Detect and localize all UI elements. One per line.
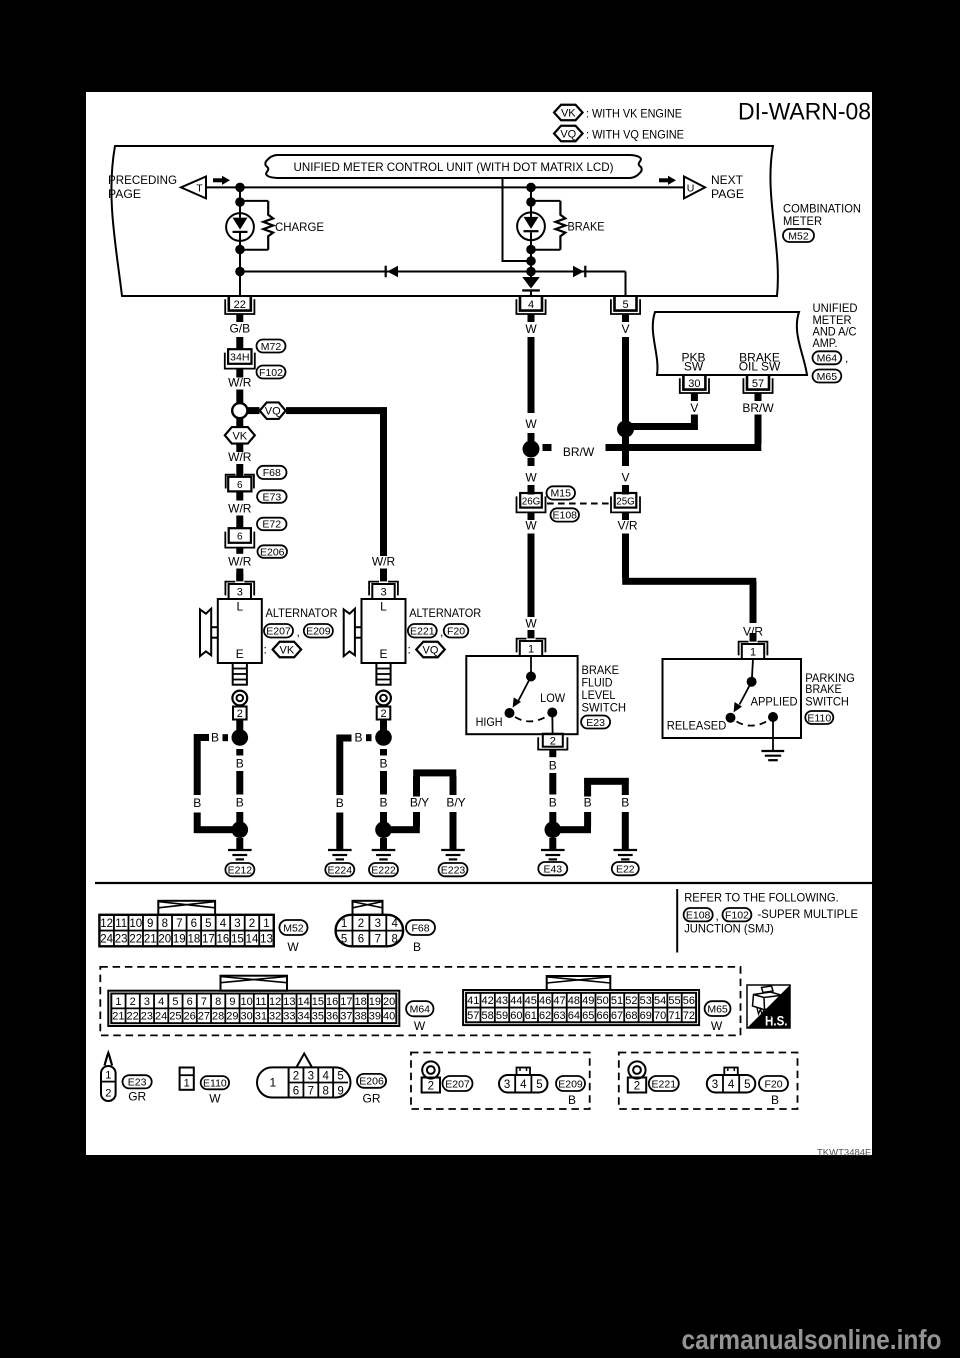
svg-text:F20: F20 [764,1078,782,1090]
svg-text:2: 2 [105,1088,111,1100]
svg-text:5: 5 [337,1070,343,1082]
svg-text:37: 37 [340,1011,352,1023]
svg-text:51: 51 [611,995,623,1007]
svg-text:: WITH VK ENGINE: : WITH VK ENGINE [586,106,682,120]
svg-text:RELEASED: RELEASED [667,719,727,733]
svg-text:: WITH VQ ENGINE: : WITH VQ ENGINE [586,127,684,141]
svg-text:49: 49 [582,995,594,1007]
svg-text:62: 62 [539,1010,551,1022]
svg-text:F102: F102 [259,367,283,379]
svg-text:3: 3 [712,1079,718,1091]
svg-text:44: 44 [510,995,522,1007]
svg-text:M52: M52 [283,922,304,934]
svg-text:8: 8 [392,934,398,946]
svg-text:E73: E73 [263,491,282,503]
svg-text:16: 16 [326,996,338,1008]
svg-text:4: 4 [728,1079,735,1091]
svg-text:G/B: G/B [229,321,250,335]
svg-text:19: 19 [369,996,381,1008]
svg-text:30: 30 [688,378,700,390]
svg-text:M15: M15 [551,488,572,500]
svg-text:W/R: W/R [228,375,252,389]
svg-text:12: 12 [100,918,113,930]
svg-text:U: U [687,182,695,194]
svg-text:PAGE: PAGE [108,187,141,201]
svg-text:2: 2 [428,1080,434,1092]
svg-text:35: 35 [312,1011,324,1023]
svg-text:3: 3 [308,1070,314,1082]
svg-text:W: W [287,940,299,954]
svg-text:5: 5 [536,1079,542,1091]
svg-text:B: B [413,940,421,954]
svg-text:B: B [379,796,387,810]
svg-text:V/R: V/R [617,519,637,533]
svg-text:,: , [845,351,848,365]
svg-text:24: 24 [100,934,113,946]
svg-text:BR/W: BR/W [742,401,774,415]
svg-text:3: 3 [380,587,386,599]
svg-text:E23: E23 [586,717,605,729]
svg-text:34: 34 [298,1011,310,1023]
svg-text:VQ: VQ [423,644,439,656]
svg-text:V: V [621,471,629,485]
svg-text:M65: M65 [707,1003,728,1015]
svg-text:34H: 34H [230,353,250,364]
svg-text:E221: E221 [410,626,435,638]
svg-text:11: 11 [255,996,266,1008]
svg-text:9: 9 [147,918,153,930]
svg-text:21: 21 [112,1011,124,1023]
svg-text:B: B [621,796,629,810]
svg-text:1: 1 [263,918,269,930]
svg-text:ALTERNATOR: ALTERNATOR [266,606,338,620]
svg-text:43: 43 [496,995,508,1007]
svg-text:BRAKE: BRAKE [805,682,841,696]
svg-text:70: 70 [654,1010,666,1022]
svg-text:W: W [525,519,537,533]
svg-text:E207: E207 [266,626,291,638]
svg-text:24: 24 [155,1011,167,1023]
svg-text:21: 21 [144,934,157,946]
svg-text:68: 68 [625,1010,637,1022]
svg-text:METER: METER [783,214,822,228]
svg-text:69: 69 [640,1010,652,1022]
svg-text:REFER TO THE FOLLOWING.: REFER TO THE FOLLOWING. [684,890,839,904]
svg-text:carmanualsonline.info: carmanualsonline.info [682,1324,942,1355]
svg-text:-SUPER MULTIPLE: -SUPER MULTIPLE [758,907,859,921]
svg-text:22: 22 [234,299,246,311]
svg-text:B: B [584,796,592,810]
svg-text:23: 23 [115,934,128,946]
svg-text:2: 2 [249,918,255,930]
svg-text:W: W [209,1091,221,1105]
svg-text:NEXT: NEXT [711,173,744,187]
svg-text:30: 30 [241,1011,253,1023]
svg-text:VK: VK [232,430,247,442]
svg-text:2: 2 [130,996,136,1008]
svg-text:2: 2 [293,1070,299,1082]
svg-text:W/R: W/R [372,555,396,569]
svg-text:M52: M52 [788,230,809,242]
svg-text:71: 71 [668,1010,680,1022]
svg-text:3: 3 [144,996,150,1008]
svg-text:UNIFIED METER CONTROL UNIT (WI: UNIFIED METER CONTROL UNIT (WITH DOT MAT… [294,160,614,174]
svg-text:42: 42 [482,995,494,1007]
svg-text:,: , [297,625,300,639]
svg-text:65: 65 [582,1010,594,1022]
svg-text:W: W [525,617,537,631]
svg-text:SW: SW [684,360,704,374]
svg-text:6: 6 [191,918,197,930]
svg-text:E22: E22 [616,863,635,875]
svg-text:E207: E207 [445,1078,470,1090]
svg-text:B: B [211,730,219,744]
svg-text:2: 2 [237,708,243,720]
svg-text:1: 1 [105,1070,111,1082]
svg-text:2: 2 [358,918,364,930]
svg-text:53: 53 [640,995,652,1007]
svg-text:67: 67 [611,1010,623,1022]
svg-text:F68: F68 [411,922,429,934]
svg-text:V: V [621,322,629,336]
svg-text:HIGH: HIGH [476,715,503,729]
svg-text:25G: 25G [616,496,635,507]
svg-text:APPLIED: APPLIED [751,695,798,709]
svg-text:,: , [440,625,443,639]
svg-text:59: 59 [496,1010,508,1022]
svg-text:B: B [379,757,387,771]
svg-text:E108: E108 [686,909,711,921]
svg-text:F102: F102 [725,909,749,921]
svg-text:VQ: VQ [560,128,576,140]
svg-text:27: 27 [198,1011,210,1023]
svg-text:56: 56 [683,995,695,1007]
svg-text:15: 15 [231,934,244,946]
svg-text:36: 36 [326,1011,338,1023]
svg-text:18: 18 [355,996,367,1008]
svg-text:W/R: W/R [228,501,252,515]
svg-text:8: 8 [322,1085,328,1097]
svg-text:TKWT3484E: TKWT3484E [817,1148,871,1159]
svg-text:40: 40 [383,1011,395,1023]
svg-text:B: B [771,1093,779,1107]
svg-text:1: 1 [341,918,347,930]
svg-text:25: 25 [169,1011,181,1023]
svg-text:OIL SW: OIL SW [739,360,781,374]
svg-text:4: 4 [528,299,534,311]
svg-text:1: 1 [115,996,121,1008]
svg-text:2: 2 [634,1080,640,1092]
svg-text:14: 14 [298,996,310,1008]
svg-text:15: 15 [312,996,324,1008]
svg-text:M64: M64 [817,353,838,365]
svg-text:GR: GR [363,1091,381,1105]
svg-text:16: 16 [217,934,230,946]
svg-text:6: 6 [358,934,364,946]
svg-text:B: B [193,796,201,810]
svg-text:L: L [380,600,387,614]
svg-text:B: B [549,796,557,810]
svg-text:54: 54 [654,995,666,1007]
svg-text:55: 55 [668,995,680,1007]
svg-text:W/R: W/R [228,450,252,464]
svg-text:5: 5 [205,918,211,930]
svg-text:3: 3 [237,587,243,599]
svg-text:M72: M72 [261,341,282,353]
svg-text:PRECEDING: PRECEDING [108,173,177,187]
svg-text:23: 23 [141,1011,153,1023]
svg-text:45: 45 [525,995,537,1007]
svg-text:18: 18 [187,934,200,946]
svg-text:8: 8 [215,996,221,1008]
svg-text:E108: E108 [552,510,577,522]
svg-text:13: 13 [260,934,273,946]
svg-text:7: 7 [308,1085,314,1097]
svg-text:6: 6 [293,1085,299,1097]
svg-text:B: B [354,730,362,744]
svg-text:6: 6 [237,480,243,491]
svg-text:2: 2 [380,708,386,720]
svg-text:ALTERNATOR: ALTERNATOR [409,606,481,620]
svg-text:VQ: VQ [265,406,281,418]
svg-text:GR: GR [128,1089,146,1103]
svg-text:50: 50 [597,995,609,1007]
svg-text:B/Y: B/Y [446,796,465,810]
svg-text:6: 6 [187,996,193,1008]
svg-text:B: B [549,759,557,773]
svg-text:V: V [690,401,698,415]
svg-text:E72: E72 [262,519,281,531]
svg-text:4: 4 [220,918,227,930]
svg-text:72: 72 [683,1010,695,1022]
svg-text:B: B [568,1093,576,1107]
svg-text:10: 10 [241,996,253,1008]
svg-text:20: 20 [158,934,171,946]
svg-text:9: 9 [229,996,235,1008]
svg-text:13: 13 [283,996,295,1008]
svg-text:6: 6 [237,532,243,543]
svg-text:17: 17 [202,934,215,946]
svg-text:41: 41 [467,995,479,1007]
svg-text:14: 14 [246,934,259,946]
svg-text:22: 22 [127,1011,139,1023]
svg-text:60: 60 [510,1010,522,1022]
svg-text:W: W [525,417,537,431]
svg-text:7: 7 [201,996,207,1008]
svg-text:4: 4 [392,918,399,930]
svg-text:64: 64 [568,1010,580,1022]
svg-text:5: 5 [744,1079,750,1091]
svg-text:B: B [336,796,344,810]
svg-text:CHARGE: CHARGE [275,220,324,234]
svg-text:22: 22 [129,934,142,946]
svg-text:9: 9 [337,1085,343,1097]
svg-text:E: E [379,647,387,661]
svg-text:57: 57 [467,1010,479,1022]
svg-text:PAGE: PAGE [711,187,744,201]
svg-text:E223: E223 [441,864,466,876]
svg-text:4: 4 [322,1070,329,1082]
svg-text:4: 4 [158,996,164,1008]
svg-text:3: 3 [504,1079,510,1091]
svg-text:W: W [525,471,537,485]
svg-text:52: 52 [625,995,637,1007]
svg-text:66: 66 [597,1010,609,1022]
svg-text:W: W [414,1019,426,1033]
svg-text:LOW: LOW [540,691,566,705]
svg-text:DI-WARN-08: DI-WARN-08 [738,99,871,126]
svg-text:B: B [236,796,244,810]
svg-text:5: 5 [341,934,347,946]
svg-text:57: 57 [752,378,764,390]
svg-text:E43: E43 [543,863,562,875]
svg-text:5: 5 [622,299,628,311]
svg-text:E212: E212 [228,864,253,876]
svg-text:32: 32 [269,1011,281,1023]
svg-text:20: 20 [383,996,395,1008]
svg-text:F20: F20 [447,626,465,638]
svg-text:W/R: W/R [228,555,252,569]
svg-text:26G: 26G [522,496,541,507]
svg-text:1: 1 [269,1076,276,1090]
svg-text:W: W [525,322,537,336]
svg-text:M64: M64 [410,1003,431,1015]
svg-text:1: 1 [750,647,756,659]
svg-text:28: 28 [212,1011,224,1023]
svg-text:AMP.: AMP. [813,336,838,350]
svg-text:3: 3 [375,918,381,930]
svg-text::: : [264,643,267,657]
svg-text:2: 2 [550,735,556,747]
svg-text:W: W [711,1019,723,1033]
svg-text:1: 1 [184,1078,190,1090]
svg-text:B/Y: B/Y [410,796,429,810]
svg-text:E110: E110 [807,712,831,724]
svg-text:E: E [236,647,244,661]
svg-text:E224: E224 [328,864,353,876]
svg-text:12: 12 [269,996,281,1008]
svg-text:58: 58 [482,1010,494,1022]
svg-text:E206: E206 [359,1076,384,1088]
svg-text:VK: VK [561,107,576,119]
svg-text:31: 31 [255,1011,267,1023]
svg-text:E209: E209 [558,1078,583,1090]
svg-text:F68: F68 [263,467,281,479]
svg-text:M65: M65 [817,371,838,383]
svg-text:7: 7 [375,934,381,946]
svg-text:63: 63 [553,1010,565,1022]
svg-text:L: L [236,600,243,614]
svg-text:SWITCH: SWITCH [805,695,849,709]
svg-text:E221: E221 [652,1078,677,1090]
svg-text:BR/W: BR/W [563,445,595,459]
svg-text:BRAKE: BRAKE [568,219,605,233]
svg-text:E110: E110 [203,1077,227,1089]
svg-text:VK: VK [280,644,295,656]
svg-text:7: 7 [176,918,182,930]
svg-text:4: 4 [520,1079,527,1091]
svg-text:B: B [236,757,244,771]
svg-text:29: 29 [226,1011,238,1023]
svg-text:46: 46 [539,995,551,1007]
svg-text:T: T [196,182,203,194]
svg-text:E209: E209 [306,626,331,638]
svg-text::: : [408,643,411,657]
svg-text:1: 1 [528,644,534,656]
svg-text:33: 33 [283,1011,295,1023]
svg-text:3: 3 [234,918,240,930]
svg-text:10: 10 [129,918,142,930]
svg-text:38: 38 [355,1011,367,1023]
svg-text:8: 8 [162,918,168,930]
svg-text:61: 61 [525,1010,537,1022]
svg-text:19: 19 [173,934,186,946]
svg-text:E222: E222 [371,864,396,876]
svg-text:5: 5 [172,996,178,1008]
svg-text:39: 39 [369,1011,381,1023]
svg-text:17: 17 [340,996,352,1008]
svg-text:E23: E23 [128,1077,147,1089]
svg-text:48: 48 [568,995,580,1007]
svg-text:JUNCTION (SMJ): JUNCTION (SMJ) [684,921,774,935]
svg-text:11: 11 [115,918,127,930]
svg-text:E206: E206 [260,546,285,558]
svg-text:26: 26 [184,1011,196,1023]
svg-text:47: 47 [553,995,565,1007]
svg-text:SWITCH: SWITCH [582,701,627,715]
